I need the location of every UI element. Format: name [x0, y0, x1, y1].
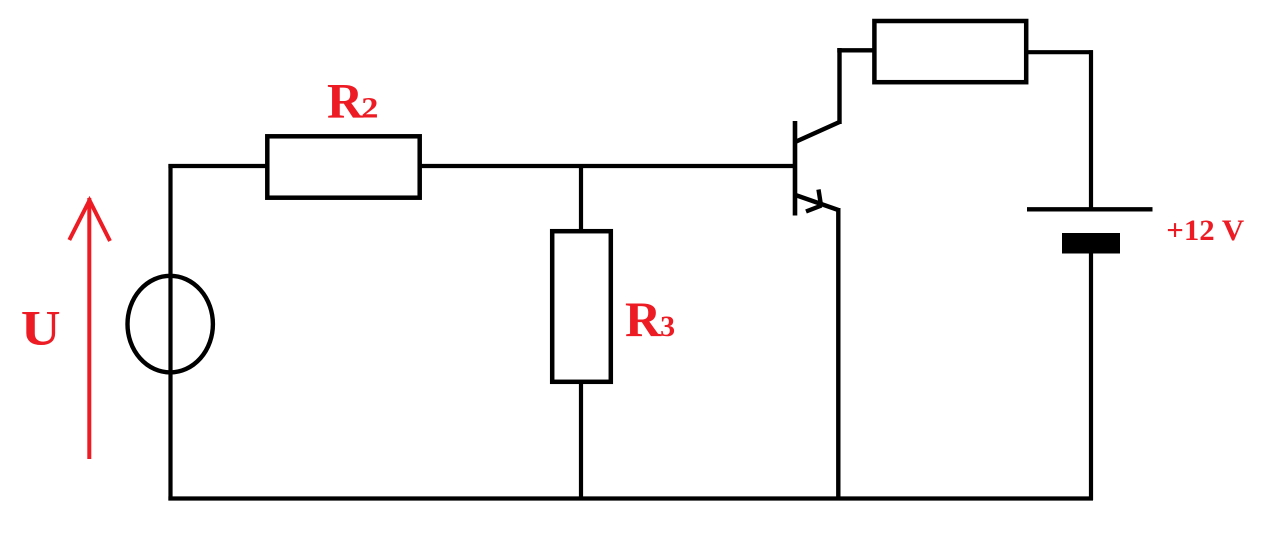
arrow for U (red shaft)	[87, 198, 91, 459]
wire: R3 top lead	[579, 166, 583, 232]
battery negative plate (thick)	[1062, 233, 1120, 254]
resistor R1 (body, unlabeled top resistor)	[874, 21, 1026, 82]
wire: battery top vertical	[1089, 50, 1093, 210]
resistor R3 (body)	[552, 231, 611, 382]
svg-text:R3: R3	[625, 291, 675, 347]
transistor Q1 collector diagonal	[794, 122, 840, 143]
wire: top-left horizontal to R2	[168, 164, 268, 168]
svg-text:2: 2	[361, 91, 378, 124]
wire: top resistor right lead	[1026, 50, 1093, 54]
wire: emitter vertical to bottom rail	[836, 208, 840, 500]
battery positive plate (long)	[1027, 207, 1153, 211]
transistor Q1 emitter arrow barb (back stroke)	[806, 206, 822, 212]
wire: bottom rail	[168, 496, 1093, 500]
transistor Q1 emitter arrow barb (upper stroke)	[819, 190, 822, 206]
svg-text:+12 V: +12 V	[1166, 214, 1244, 247]
wire: battery bottom vertical	[1089, 252, 1093, 500]
svg-text:U: U	[21, 300, 61, 356]
svg-text:R: R	[327, 72, 364, 128]
wire: left branch vertical (source leg)	[168, 164, 172, 501]
transistor Q1 emitter diagonal	[794, 195, 838, 211]
wire: base wire from R2 to transistor	[420, 164, 795, 168]
arrow for U (red head)	[69, 200, 110, 241]
voltage source U (circle)	[128, 276, 213, 373]
resistor R2 (body)	[267, 136, 419, 197]
transistor Q1 base bar	[793, 121, 798, 216]
wire: collector vertical	[837, 48, 841, 124]
wire: top resistor left lead	[837, 48, 874, 52]
wire: R3 bottom lead	[579, 381, 583, 500]
